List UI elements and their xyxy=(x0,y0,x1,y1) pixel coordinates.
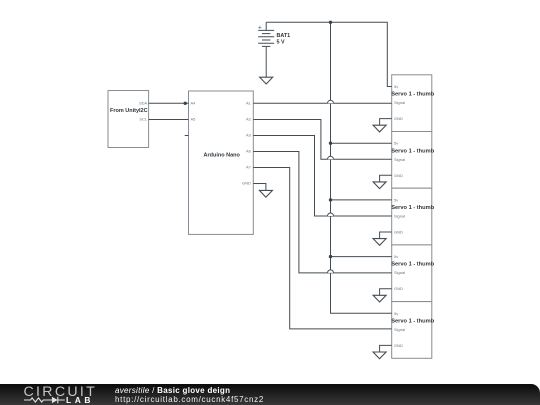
block SERVO5 Servo 1 - thumb xyxy=(391,302,435,359)
svg-text:A4: A4 xyxy=(191,101,197,106)
block SERVO4 Servo 1 - thumb xyxy=(391,245,435,302)
block U2 From UnityI2C xyxy=(108,91,149,148)
svg-text:A3: A3 xyxy=(246,133,252,138)
footer url text xyxy=(115,395,264,404)
svg-text:Signal: Signal xyxy=(394,100,405,105)
block U1 Arduino Nano xyxy=(189,91,254,234)
ground (servo2) xyxy=(373,182,386,189)
svg-text:5v: 5v xyxy=(394,197,398,202)
svg-text:Signal: Signal xyxy=(394,327,405,332)
svg-text:5v: 5v xyxy=(394,254,398,259)
svg-text:Servo 1 - thumb: Servo 1 - thumb xyxy=(391,205,435,211)
svg-text:Signal: Signal xyxy=(394,157,405,162)
svg-text:From UnityI2C: From UnityI2C xyxy=(110,108,148,114)
svg-text:5v: 5v xyxy=(394,141,398,146)
svg-text:5v: 5v xyxy=(394,84,398,89)
svg-text:Servo 1 - thumb: Servo 1 - thumb xyxy=(391,92,435,98)
wire hop A1 over rail xyxy=(328,100,334,103)
svg-text:GND: GND xyxy=(242,181,251,186)
wire servo3 GND xyxy=(380,232,392,239)
wire A7 to servo5 Signal xyxy=(253,168,391,329)
svg-text:Arduino Nano: Arduino Nano xyxy=(204,153,241,159)
wire servo5 GND xyxy=(380,345,392,352)
svg-text:GND: GND xyxy=(394,173,403,178)
wire battery+ top rail to servo1 5v xyxy=(266,22,392,86)
block SERVO3 Servo 1 - thumb xyxy=(391,188,435,245)
svg-text:GND: GND xyxy=(394,230,403,235)
wire A3 to servo3 Signal xyxy=(253,136,391,217)
pin stub U1 unconnected left pin xyxy=(185,135,189,137)
svg-text:A1: A1 xyxy=(246,101,252,106)
junction top rail xyxy=(329,21,332,24)
svg-text:LAB: LAB xyxy=(66,395,94,405)
ground (U1 GND) xyxy=(259,190,272,197)
junction rail-servo3 xyxy=(329,198,332,201)
ground (servo5) xyxy=(373,352,386,359)
wire hop A6 over rail xyxy=(328,270,334,273)
svg-text:Servo 1 - thumb: Servo 1 - thumb xyxy=(391,262,435,268)
svg-text:Signal: Signal xyxy=(394,214,405,219)
svg-text:5v: 5v xyxy=(394,311,398,316)
svg-text:A6: A6 xyxy=(246,149,252,154)
svg-text:GND: GND xyxy=(394,343,403,348)
battery BAT1 5 V xyxy=(258,22,290,77)
svg-text:Servo 1 - thumb: Servo 1 - thumb xyxy=(391,148,435,154)
ground (servo1) xyxy=(373,125,386,132)
svg-text:GND: GND xyxy=(394,286,403,291)
wire 5V branch to servo2 5v xyxy=(331,142,392,144)
wire A1 to servo1 Signal xyxy=(253,102,391,104)
svg-text:+: + xyxy=(258,24,262,31)
wire 5V branch to servo4 5v xyxy=(331,256,392,258)
svg-text:A7: A7 xyxy=(246,165,252,170)
wire 5V vertical rail xyxy=(331,22,392,313)
footer title text xyxy=(115,386,230,395)
wire servo4 GND xyxy=(380,289,392,296)
svg-text:A5: A5 xyxy=(191,117,197,122)
svg-text:GND: GND xyxy=(394,116,403,121)
wire servo1 GND xyxy=(380,119,392,126)
footer bar xyxy=(0,384,540,405)
wire A6 to servo4 Signal xyxy=(253,152,391,273)
junction rail-servo4 xyxy=(329,255,332,258)
svg-text:Servo 1 - thumb: Servo 1 - thumb xyxy=(391,318,435,324)
wire hop A3 over rail xyxy=(328,213,334,216)
svg-text:SCL: SCL xyxy=(139,117,148,122)
svg-text:SDA: SDA xyxy=(139,101,148,106)
block SERVO1 Servo 1 - thumb xyxy=(391,75,435,132)
wire servo2 GND xyxy=(380,175,392,182)
wire 5V branch to servo3 5v xyxy=(331,199,392,201)
CircuitLab logo xyxy=(0,384,100,405)
svg-text:A2: A2 xyxy=(246,117,252,122)
svg-text:5 V: 5 V xyxy=(277,40,285,46)
ground (servo4) xyxy=(373,295,386,302)
ground (battery negative) xyxy=(260,77,273,84)
ground (servo3) xyxy=(373,239,386,246)
wire SDA to A4 xyxy=(149,102,189,104)
wire SCL to A5 xyxy=(149,119,189,121)
wire A2 to servo2 Signal xyxy=(253,120,391,160)
wire hop A2 over rail xyxy=(328,156,334,159)
junction rail-servo2 xyxy=(329,142,332,145)
svg-text:BAT1: BAT1 xyxy=(277,33,291,39)
svg-text:Signal: Signal xyxy=(394,270,405,275)
junction at A4 xyxy=(184,102,187,105)
wire U1 GND xyxy=(253,184,266,191)
block SERVO2 Servo 1 - thumb xyxy=(391,132,435,189)
